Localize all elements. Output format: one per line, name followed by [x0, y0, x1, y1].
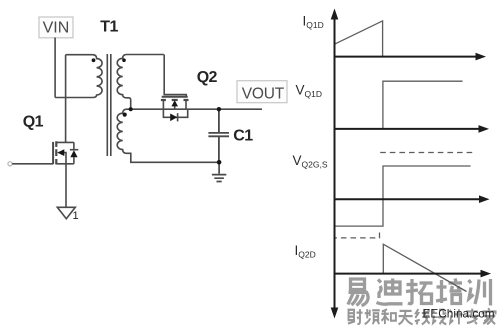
Q2 drain/source stubs: [163, 100, 186, 109]
wm char 易: [351, 279, 365, 290]
Q2 bulk stub: [174, 106, 176, 109]
waveform V_Q2G,S pulse: [335, 166, 471, 226]
ground under C1: [212, 162, 226, 181]
wm char 专: [466, 310, 478, 312]
wire primary to Q1 drain: [65, 55, 67, 143]
waveform V_Q1D pulse: [383, 81, 463, 128]
Q1 bulk arrow (left): [57, 149, 64, 156]
Q1 gate input terminal circle: [8, 162, 12, 166]
junction dot center tap: [129, 107, 133, 111]
svg-text:IQ1D: IQ1D: [303, 13, 324, 30]
Q2 body diode loop: [163, 109, 187, 117]
waveform I_Q2D dashed level: [335, 233, 380, 238]
svg-text:VQ1D: VQ1D: [296, 82, 323, 99]
junction dot bottom rail: [217, 160, 222, 165]
Q2 gate wire: [164, 55, 186, 97]
waveform I_Q1D ramp: [335, 21, 475, 292]
ground triangle below Q1: [57, 207, 75, 218]
primary phase dot: [92, 58, 96, 62]
Q2 gate bar: [162, 96, 188, 98]
wm char 频: [366, 309, 368, 318]
Q1 body diode triangle (up): [70, 150, 77, 157]
Q1 drain stub: [56, 141, 74, 143]
main vertical axis: [331, 9, 491, 319]
svg-text:1: 1: [73, 210, 79, 222]
C1 wire + plates: [208, 109, 229, 162]
svg-text:EEChina.com: EEChina.com: [423, 307, 495, 321]
transformer core: [106, 54, 108, 156]
Q1 source stub: [56, 163, 74, 165]
wm char 训: [469, 280, 472, 283]
watermark big text 易迪拓培训 (drawn as paths, under waveforms): [348, 279, 491, 306]
transformer secondary top winding: [117, 55, 164, 110]
schematic labels: [43, 20, 285, 103]
wire VIN down: [54, 38, 56, 98]
secondary top phase dot: [122, 58, 126, 62]
svg-text:VQ2G,S: VQ2G,S: [293, 153, 328, 170]
axis 1: [335, 56, 478, 58]
output rail: [131, 108, 262, 110]
Q1 diode cathode bar: [70, 149, 78, 151]
svg-text:IQ2D: IQ2D: [295, 243, 316, 259]
axis 4: [335, 273, 483, 275]
wm char 计: [450, 310, 452, 313]
wm char 迪: [386, 282, 401, 294]
Q2 diode cathode bar: [177, 113, 179, 121]
waveform labels: [293, 13, 328, 259]
wm char 天: [400, 310, 412, 312]
svg-text:T1: T1: [100, 19, 118, 36]
VOUT box: [237, 81, 287, 103]
Q1 channel segments: [55, 141, 57, 164]
svg-text:VOUT: VOUT: [242, 85, 285, 102]
secondary bottom phase dot: [123, 113, 127, 117]
Q1 bulk stub: [64, 153, 67, 164]
wm char 拓: [408, 279, 412, 304]
wm char 家: [488, 308, 490, 310]
wm char 和: [382, 309, 387, 311]
Q1 body diode verticals: [73, 142, 75, 163]
Q2 bulk arrow (up): [171, 100, 178, 106]
waveform I_Q2D ramp: [383, 244, 466, 291]
filled parts: [57, 58, 221, 164]
axis 3: [335, 198, 481, 200]
waveform V_Q2G,S dashed level: [380, 152, 474, 154]
Q2 channel segments: [161, 99, 189, 101]
VIN box: [39, 17, 73, 38]
junction dot rail/C1: [217, 107, 221, 111]
watermark small text 射频和天线设计专家: [348, 308, 496, 324]
wm char 培: [440, 280, 443, 303]
svg-text:C1: C1: [233, 127, 253, 144]
transformer T1 primary winding: [55, 55, 102, 98]
wm char 射: [349, 310, 355, 320]
Q1 source wire down: [65, 164, 67, 207]
wm char 线: [415, 309, 418, 318]
svg-text:Q1: Q1: [23, 113, 44, 130]
wm char 设: [433, 310, 435, 313]
transformer secondary bottom winding: [117, 109, 219, 162]
Q2 body diode triangle (right): [170, 114, 177, 122]
Q1 gate bar: [52, 142, 54, 164]
svg-text:Q2: Q2: [197, 69, 218, 86]
Q1 gate lead: [12, 163, 53, 165]
axis 2: [335, 128, 481, 130]
svg-text:VIN: VIN: [43, 20, 70, 37]
